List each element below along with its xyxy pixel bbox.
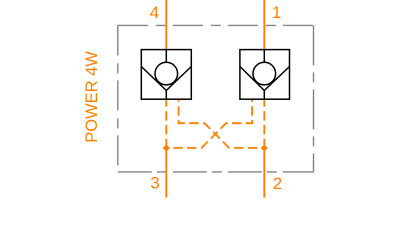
svg-text:POWER 4W: POWER 4W bbox=[83, 51, 101, 143]
check valve CV2 seat right bbox=[264, 67, 289, 91]
check valve CV1 ball bbox=[155, 62, 178, 85]
check valve CV1 seat right bbox=[166, 67, 191, 91]
wire port 3 (bottom left vertical line below junction) bbox=[165, 148, 167, 198]
check valve CV1 bottom stem bbox=[165, 91, 167, 100]
wire valve CV2 outlet to node B (dashed) bbox=[263, 99, 265, 145]
check valve CV2 top stem bbox=[263, 50, 265, 63]
check valve CV1 seat left bbox=[141, 67, 166, 91]
node A junction diamond bbox=[163, 144, 170, 151]
wire port 1 (top right vertical line) bbox=[263, 0, 265, 50]
wire port 4 (top left vertical line) bbox=[165, 0, 167, 50]
pilot line CV1 to node B (dashed crossover) bbox=[179, 99, 261, 148]
svg-text:3: 3 bbox=[150, 174, 159, 193]
check valve CV2 seat left bbox=[240, 67, 264, 91]
wire valve CV1 outlet to node A (dashed) bbox=[165, 99, 167, 145]
enclosure boundary (dashed gray box) bbox=[118, 25, 314, 172]
wire port 2 (bottom right vertical line below junction) bbox=[263, 148, 265, 198]
check valve CV2 ball bbox=[253, 62, 276, 85]
node B junction diamond bbox=[261, 144, 268, 151]
check valve CV2 bottom stem bbox=[263, 91, 265, 100]
check valve CV2 body (right square) bbox=[240, 50, 290, 100]
svg-text:2: 2 bbox=[273, 174, 282, 193]
check valve CV1 body (left square) bbox=[141, 50, 191, 100]
pilot line CV2 to node A (dashed crossover) bbox=[170, 99, 252, 148]
check valve CV1 top stem bbox=[165, 50, 167, 63]
svg-text:4: 4 bbox=[150, 3, 159, 22]
svg-text:1: 1 bbox=[272, 3, 281, 22]
